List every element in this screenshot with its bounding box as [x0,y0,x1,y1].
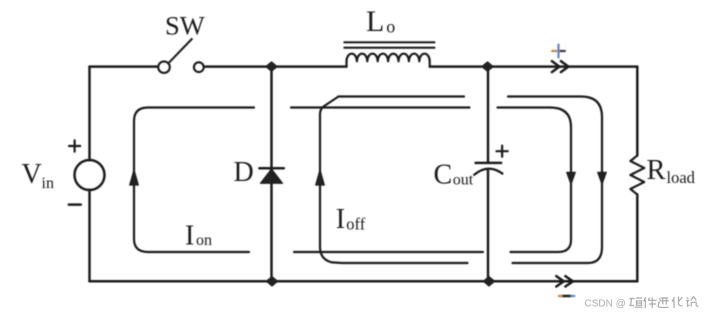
polarity plus Vin [69,140,80,151]
node junction bottom diode [266,277,278,287]
wire bottom rail [90,280,638,283]
polarity plus top right [552,50,559,52]
svg-text:load: load [667,168,696,187]
resistor Rload [630,156,644,195]
loop Ioff arrow up [316,170,325,185]
svg-text:SW: SW [165,11,205,41]
node junction bottom capacitor [483,277,495,287]
node junction top capacitor [482,62,494,72]
loop Ion left section [134,108,254,253]
wire top rail middle segment [204,65,346,68]
loop Ioff right section [508,97,602,264]
wire left rail [88,67,91,282]
svg-text:o: o [386,16,395,36]
svg-text:D: D [234,157,254,188]
loop Ion right section [498,108,572,253]
current direction arrow top wire [552,61,569,72]
svg-text:V: V [22,159,42,190]
voltage source Vin [75,160,105,190]
svg-text:out: out [453,172,474,189]
inductor Lo [344,42,434,66]
svg-text:I: I [336,204,345,235]
capacitor Cout wire [487,67,490,282]
svg-text:CSDN @: CSDN @ [585,298,626,309]
polarity minus bottom right [562,295,572,298]
wire top rail right segment [430,65,638,68]
loop Ion top middle segment [291,106,470,108]
current direction arrow bottom wire [556,276,573,286]
svg-text:R: R [647,155,666,186]
polarity plus Cout [497,146,508,157]
svg-text:L: L [366,5,384,38]
switch SW [158,39,204,73]
polarity minus Vin [69,203,81,206]
loop Ioff arrow down [598,172,607,184]
watermark CSDN [585,297,699,310]
diode D [259,168,283,183]
loop Ion bottom middle segment [294,251,483,253]
svg-text:C: C [434,160,453,191]
svg-text:off: off [346,215,365,234]
svg-text:on: on [196,232,212,249]
svg-text:in: in [42,175,54,192]
diode D wire [270,67,273,282]
loop Ioff top segment [339,95,465,97]
loop Ion arrow up [130,170,139,185]
capacitor Cout plates [474,163,502,175]
node junction top diode [266,62,278,72]
loop Ion arrow down [567,172,576,184]
wire right rail [636,67,639,282]
svg-text:I: I [185,221,194,252]
loop Ioff left section [320,97,468,264]
wire top rail left segment [90,65,158,68]
